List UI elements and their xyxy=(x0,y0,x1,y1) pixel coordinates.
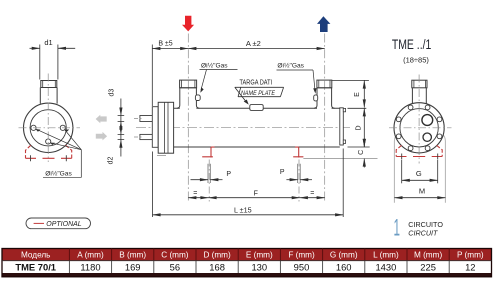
svg-text:CIRCUIT: CIRCUIT xyxy=(408,229,438,238)
table data row background xyxy=(2,261,492,273)
main flange xyxy=(158,102,173,153)
shell centerline xyxy=(136,127,353,129)
left view optional tick marks xyxy=(31,155,67,161)
svg-text:(18÷85): (18÷85) xyxy=(403,55,429,64)
svg-text:d1: d1 xyxy=(44,38,52,47)
right view bolt holes xyxy=(396,105,442,151)
table bottom bar xyxy=(2,273,492,277)
shell bottom line xyxy=(174,146,340,148)
svg-text:TARGA DATI: TARGA DATI xyxy=(240,80,273,87)
B dimension xyxy=(152,45,188,107)
svg-text:L (mm): L (mm) xyxy=(373,250,399,259)
svg-text:Øi½"Gas: Øi½"Gas xyxy=(277,61,304,69)
D dimension xyxy=(348,108,370,147)
left view inner circle xyxy=(30,110,66,146)
L dimension xyxy=(153,149,344,218)
svg-text:168: 168 xyxy=(209,261,225,272)
optional label oval xyxy=(26,218,91,229)
svg-text:12: 12 xyxy=(465,261,475,272)
right port body xyxy=(314,80,334,108)
svg-text:225: 225 xyxy=(420,261,436,272)
left view gas label leader arrowheads xyxy=(36,129,41,132)
right view optional red bracket xyxy=(396,145,442,156)
shell end ring xyxy=(340,108,344,145)
port centerline right xyxy=(324,34,326,202)
svg-text:M (mm): M (mm) xyxy=(414,250,442,259)
left view outer flange circle xyxy=(24,103,73,152)
P dimension left xyxy=(191,179,223,181)
svg-text:TME 70/1: TME 70/1 xyxy=(15,261,56,272)
flange backing plate xyxy=(152,107,158,148)
right view inner circle xyxy=(400,109,438,147)
left view neck body xyxy=(40,88,57,104)
left view vertical centerline xyxy=(47,74,49,163)
E dimension xyxy=(332,80,369,107)
stub centerline dashes xyxy=(134,119,142,138)
svg-text:=: = xyxy=(193,190,197,197)
A dimension xyxy=(188,48,324,50)
svg-text:d2: d2 xyxy=(107,157,114,165)
bottom stub right: red mark xyxy=(293,147,303,157)
blue outlet arrow xyxy=(317,16,330,32)
svg-text:950: 950 xyxy=(294,261,310,272)
svg-text:Модель: Модель xyxy=(21,250,50,259)
svg-text:169: 169 xyxy=(125,261,141,272)
svg-text:B (mm): B (mm) xyxy=(119,250,146,259)
table outer border xyxy=(2,249,492,277)
port centerline left xyxy=(187,34,189,202)
right view neck body xyxy=(412,88,426,104)
right view neck cap xyxy=(412,80,427,88)
P dimension right xyxy=(286,179,312,181)
shell top line xyxy=(174,107,340,109)
left view gas label leader xyxy=(36,129,81,177)
right view outer circle xyxy=(394,103,444,153)
svg-text:130: 130 xyxy=(251,261,267,272)
right view small port circle xyxy=(423,133,431,141)
svg-text:160: 160 xyxy=(336,261,352,272)
table header separators xyxy=(69,249,449,261)
F dimension row xyxy=(188,197,324,199)
left view hole bottom xyxy=(46,139,51,144)
right port fitting xyxy=(314,95,318,101)
svg-text:NAME PLATE: NAME PLATE xyxy=(241,90,275,97)
table header text xyxy=(21,250,484,259)
svg-text:D (mm): D (mm) xyxy=(203,250,231,259)
svg-text:56: 56 xyxy=(170,261,180,272)
left view hole left xyxy=(31,125,36,130)
left view hole right xyxy=(60,125,65,130)
left stub tube bottom xyxy=(140,134,153,139)
svg-text:1180: 1180 xyxy=(80,261,100,272)
svg-text:OPTIONAL: OPTIONAL xyxy=(46,221,82,228)
svg-text:Øi½"Gas: Øi½"Gas xyxy=(201,62,228,70)
svg-text:C (mm): C (mm) xyxy=(161,250,189,259)
svg-text:A (mm): A (mm) xyxy=(77,250,104,259)
svg-text:G (mm): G (mm) xyxy=(330,250,358,259)
right view big port circle xyxy=(422,115,433,126)
svg-text:E (mm): E (mm) xyxy=(246,250,273,259)
svg-text:A ±2: A ±2 xyxy=(246,39,261,48)
svg-text:P: P xyxy=(226,171,231,178)
svg-text:1430: 1430 xyxy=(375,261,396,272)
table header/data divider xyxy=(2,260,492,262)
left view optional red bracket xyxy=(26,145,72,158)
left view neck cap xyxy=(41,81,57,88)
svg-text:TME ../1: TME ../1 xyxy=(392,37,432,52)
svg-text:P (mm): P (mm) xyxy=(457,250,484,259)
right view gray shell profile xyxy=(394,134,445,203)
right view optional ticks xyxy=(402,154,438,160)
gray flow arrow right xyxy=(96,132,107,141)
svg-text:L ±15: L ±15 xyxy=(234,205,252,214)
M dimension xyxy=(394,197,445,199)
name plate on shell xyxy=(250,105,263,111)
C dimension xyxy=(363,139,365,168)
svg-text:C: C xyxy=(358,150,365,155)
svg-text:d3: d3 xyxy=(109,89,116,97)
left stub tube top xyxy=(140,116,153,122)
svg-text:B ±5: B ±5 xyxy=(158,41,172,48)
bottom stub left lines xyxy=(208,164,210,183)
bottom stub left: red mark xyxy=(202,147,214,157)
svg-text:F (mm): F (mm) xyxy=(288,250,315,259)
d1 dimension xyxy=(30,45,76,80)
left port body xyxy=(177,80,199,108)
svg-text:P: P xyxy=(280,169,285,176)
gray flow arrow left xyxy=(96,115,107,124)
svg-text:M: M xyxy=(419,186,425,195)
svg-text:G: G xyxy=(416,169,422,178)
svg-text:1: 1 xyxy=(394,215,401,242)
svg-text:=: = xyxy=(310,190,314,197)
red inlet arrow xyxy=(182,16,194,32)
left port fitting xyxy=(195,95,200,101)
table data separators xyxy=(69,261,449,273)
G dimension xyxy=(402,160,438,183)
svg-text:F: F xyxy=(254,190,258,197)
svg-text:D: D xyxy=(356,125,363,130)
bottom stub right lines xyxy=(298,164,301,183)
svg-text:Øi½"Gas: Øi½"Gas xyxy=(45,169,72,177)
left view horizontal centerline xyxy=(19,127,81,129)
optional bottom line right xyxy=(157,156,378,159)
right view centerlines xyxy=(389,127,452,129)
table header background xyxy=(2,249,492,261)
table data text xyxy=(15,261,475,272)
d3/d2 dimension xyxy=(118,99,125,157)
svg-text:E: E xyxy=(354,92,361,97)
